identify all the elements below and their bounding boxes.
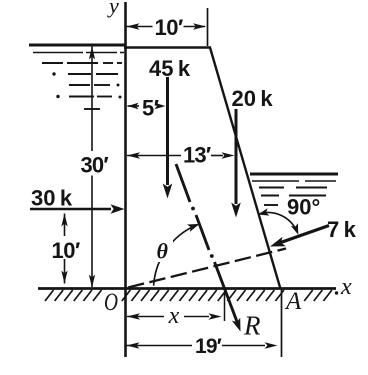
svg-text:O: O (104, 289, 118, 316)
svg-text:5′: 5′ (142, 96, 159, 121)
force 30 k (30, 186, 125, 214)
dimension 10 ft (top) (127, 8, 208, 46)
point label A (284, 288, 302, 315)
svg-text:20 k: 20 k (232, 86, 274, 111)
svg-text:y: y (107, 0, 119, 18)
water surface left (29, 45, 126, 109)
angle 90 deg arc (258, 195, 320, 235)
resultant R (dash-dot line with arrow) (176, 164, 261, 341)
dimension 13 ft (127, 143, 235, 168)
svg-text:x: x (168, 303, 180, 329)
svg-text:R: R (243, 311, 261, 341)
dashed line of action of 7 k through base (128, 249, 286, 288)
axis label x with dot (335, 274, 352, 300)
extension tick below base corner A (281, 289, 283, 357)
dimension 5 ft (128, 96, 166, 121)
dam top edge (124, 46, 211, 48)
svg-text:30 k: 30 k (31, 186, 73, 211)
dimension 10 ft (left lower) (52, 214, 80, 284)
svg-text:10′: 10′ (155, 15, 183, 40)
force 45 k (149, 56, 191, 199)
svg-text:10′: 10′ (52, 238, 80, 263)
y-axis / dam left face (124, 2, 127, 357)
svg-text:A: A (284, 288, 302, 315)
svg-text:19′: 19′ (195, 335, 222, 358)
dam right slanted face (210, 48, 281, 290)
svg-text:30′: 30′ (81, 153, 109, 178)
water surface right (250, 174, 338, 205)
svg-text:θ: θ (157, 239, 169, 264)
svg-text:45 k: 45 k (149, 56, 191, 81)
axis label y (107, 0, 119, 18)
force 20 k (231, 86, 273, 218)
svg-text:13′: 13′ (183, 143, 211, 168)
origin label O (104, 289, 118, 316)
ground line (x axis) (38, 287, 336, 290)
svg-text:90°: 90° (287, 195, 320, 220)
force 7 k (270, 217, 357, 247)
dimension 30 ft (81, 47, 109, 288)
svg-text:x: x (340, 274, 352, 300)
angle theta arc (149, 224, 200, 286)
ground hatching (45, 290, 332, 301)
dimension 19 ft (127, 335, 278, 358)
svg-text:7 k: 7 k (327, 217, 357, 242)
dimension x (127, 292, 225, 329)
